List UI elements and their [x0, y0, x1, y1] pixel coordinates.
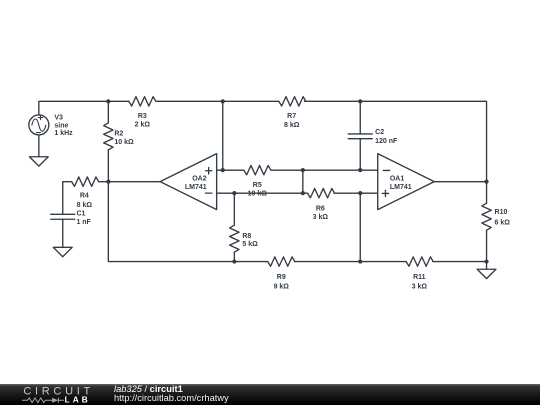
wire V3 top to node A: [39, 101, 109, 115]
wire R4 right to node D: [99, 181, 108, 183]
node B junction: [221, 99, 225, 103]
junction OA1 output: [484, 180, 488, 184]
svg-text:http://circuitlab.com/crhatwy: http://circuitlab.com/crhatwy: [114, 393, 229, 403]
svg-text:OA2: OA2: [192, 176, 207, 183]
svg-text:R6: R6: [316, 205, 325, 212]
op-amp OA1: [378, 154, 435, 210]
wire R8 to bottom rail: [233, 252, 235, 261]
junction bottom center: [358, 259, 362, 263]
junction bridge top: [301, 168, 305, 172]
svg-text:C2: C2: [375, 129, 384, 136]
resistor R4: [72, 177, 99, 186]
svg-text:R9: R9: [277, 274, 286, 281]
junction R8 top: [232, 191, 236, 195]
node A junction: [106, 99, 110, 103]
svg-text:120 nF: 120 nF: [375, 138, 398, 145]
svg-text:C1: C1: [76, 210, 85, 217]
wire node F down to bottom rail: [359, 193, 361, 261]
svg-text:R11: R11: [413, 274, 426, 281]
resistor R6: [308, 188, 335, 197]
svg-text:3 kΩ: 3 kΩ: [412, 283, 428, 290]
svg-text:OA1: OA1: [390, 176, 405, 183]
resistor R11: [406, 257, 433, 266]
svg-text:LM741: LM741: [390, 184, 412, 191]
wire R2 to node D: [107, 150, 109, 182]
svg-text:3 kΩ: 3 kΩ: [313, 214, 329, 221]
resistor R7: [279, 97, 306, 106]
resistor R5: [244, 165, 271, 174]
svg-text:R5: R5: [253, 182, 262, 189]
svg-text:10 kΩ: 10 kΩ: [114, 139, 134, 146]
wire R3 to node B: [156, 100, 223, 102]
wire R5 to OA1 - input: [271, 169, 378, 171]
node D junction: [106, 180, 110, 184]
wire R9 to R11: [295, 261, 407, 263]
svg-text:8 kΩ: 8 kΩ: [284, 122, 300, 129]
svg-text:1 nF: 1 nF: [76, 219, 91, 226]
resistor R8: [230, 225, 239, 252]
wire C2 bottom stem: [359, 139, 361, 171]
wire R10 to bottom node: [486, 230, 488, 261]
ground of V3: [29, 157, 48, 166]
junction bottom right: [484, 259, 488, 263]
wire node A to R2: [107, 101, 109, 123]
svg-text:V3: V3: [54, 115, 63, 122]
resistor R2: [104, 123, 113, 150]
footer bar: [0, 384, 540, 405]
capacitor C2: [348, 134, 372, 139]
wire R7 to node C: [304, 100, 360, 102]
wire OA1 output to right rail: [434, 181, 486, 183]
node C junction: [358, 99, 362, 103]
wire C1 to ground: [62, 219, 64, 247]
junction C2 bottom: [358, 168, 362, 172]
wire node C to right corner to OA1 output node: [360, 101, 486, 181]
wire node D down and bottom rail to R9: [108, 182, 267, 262]
svg-text:8 kΩ: 8 kΩ: [77, 202, 93, 209]
svg-text:10 kΩ: 10 kΩ: [248, 191, 268, 198]
ground right: [477, 269, 496, 278]
capacitor C1: [51, 214, 75, 219]
svg-text:R8: R8: [242, 233, 251, 240]
svg-text:sine: sine: [54, 122, 68, 129]
svg-text:1 kHz: 1 kHz: [54, 130, 73, 137]
ground of C1: [53, 247, 72, 256]
wire bottom node to ground: [486, 262, 488, 270]
svg-text:LM741: LM741: [185, 184, 207, 191]
svg-text:LAB: LAB: [65, 394, 91, 404]
svg-text:R7: R7: [287, 113, 296, 120]
svg-text:R3: R3: [138, 113, 147, 120]
junction bridge bottom: [301, 191, 305, 195]
wire right rail to R10: [486, 182, 488, 204]
voltage source V3: [29, 115, 49, 135]
wire bridge node vertical: [302, 170, 304, 193]
svg-text:5 kΩ: 5 kΩ: [242, 241, 258, 248]
svg-text:2 kΩ: 2 kΩ: [135, 122, 151, 129]
wire node D to OA2 output: [108, 181, 160, 183]
resistor R10: [482, 203, 491, 230]
wire node B down to OA2 + input: [222, 101, 224, 170]
junction R6 right: [358, 191, 362, 195]
junction OA2 plus: [221, 168, 225, 172]
svg-text:9 kΩ: 9 kΩ: [274, 283, 290, 290]
svg-text:6 kΩ: 6 kΩ: [495, 219, 511, 226]
wire V3 bottom to ground: [38, 135, 40, 157]
wire R6 to OA1 + input: [334, 192, 378, 194]
svg-text:R2: R2: [114, 130, 123, 137]
wire OA2 - input to R6: [217, 192, 308, 194]
wire R4 left to C1: [63, 182, 72, 215]
svg-text:R10: R10: [495, 209, 508, 216]
resistor R9: [268, 257, 295, 266]
resistor R3: [129, 97, 156, 106]
junction R8 bottom: [232, 259, 236, 263]
wire OA2 - node to R8: [233, 193, 235, 225]
wire node A to R3: [108, 100, 129, 102]
svg-text:R4: R4: [80, 193, 89, 200]
wire node B to R7: [223, 100, 279, 102]
wire C2 top stem: [359, 101, 361, 134]
op-amp OA2: [160, 154, 217, 210]
logo waveform: [22, 398, 52, 403]
wire OA2 + input to R5: [217, 169, 244, 171]
wire R11 to bottom right node: [433, 261, 487, 263]
